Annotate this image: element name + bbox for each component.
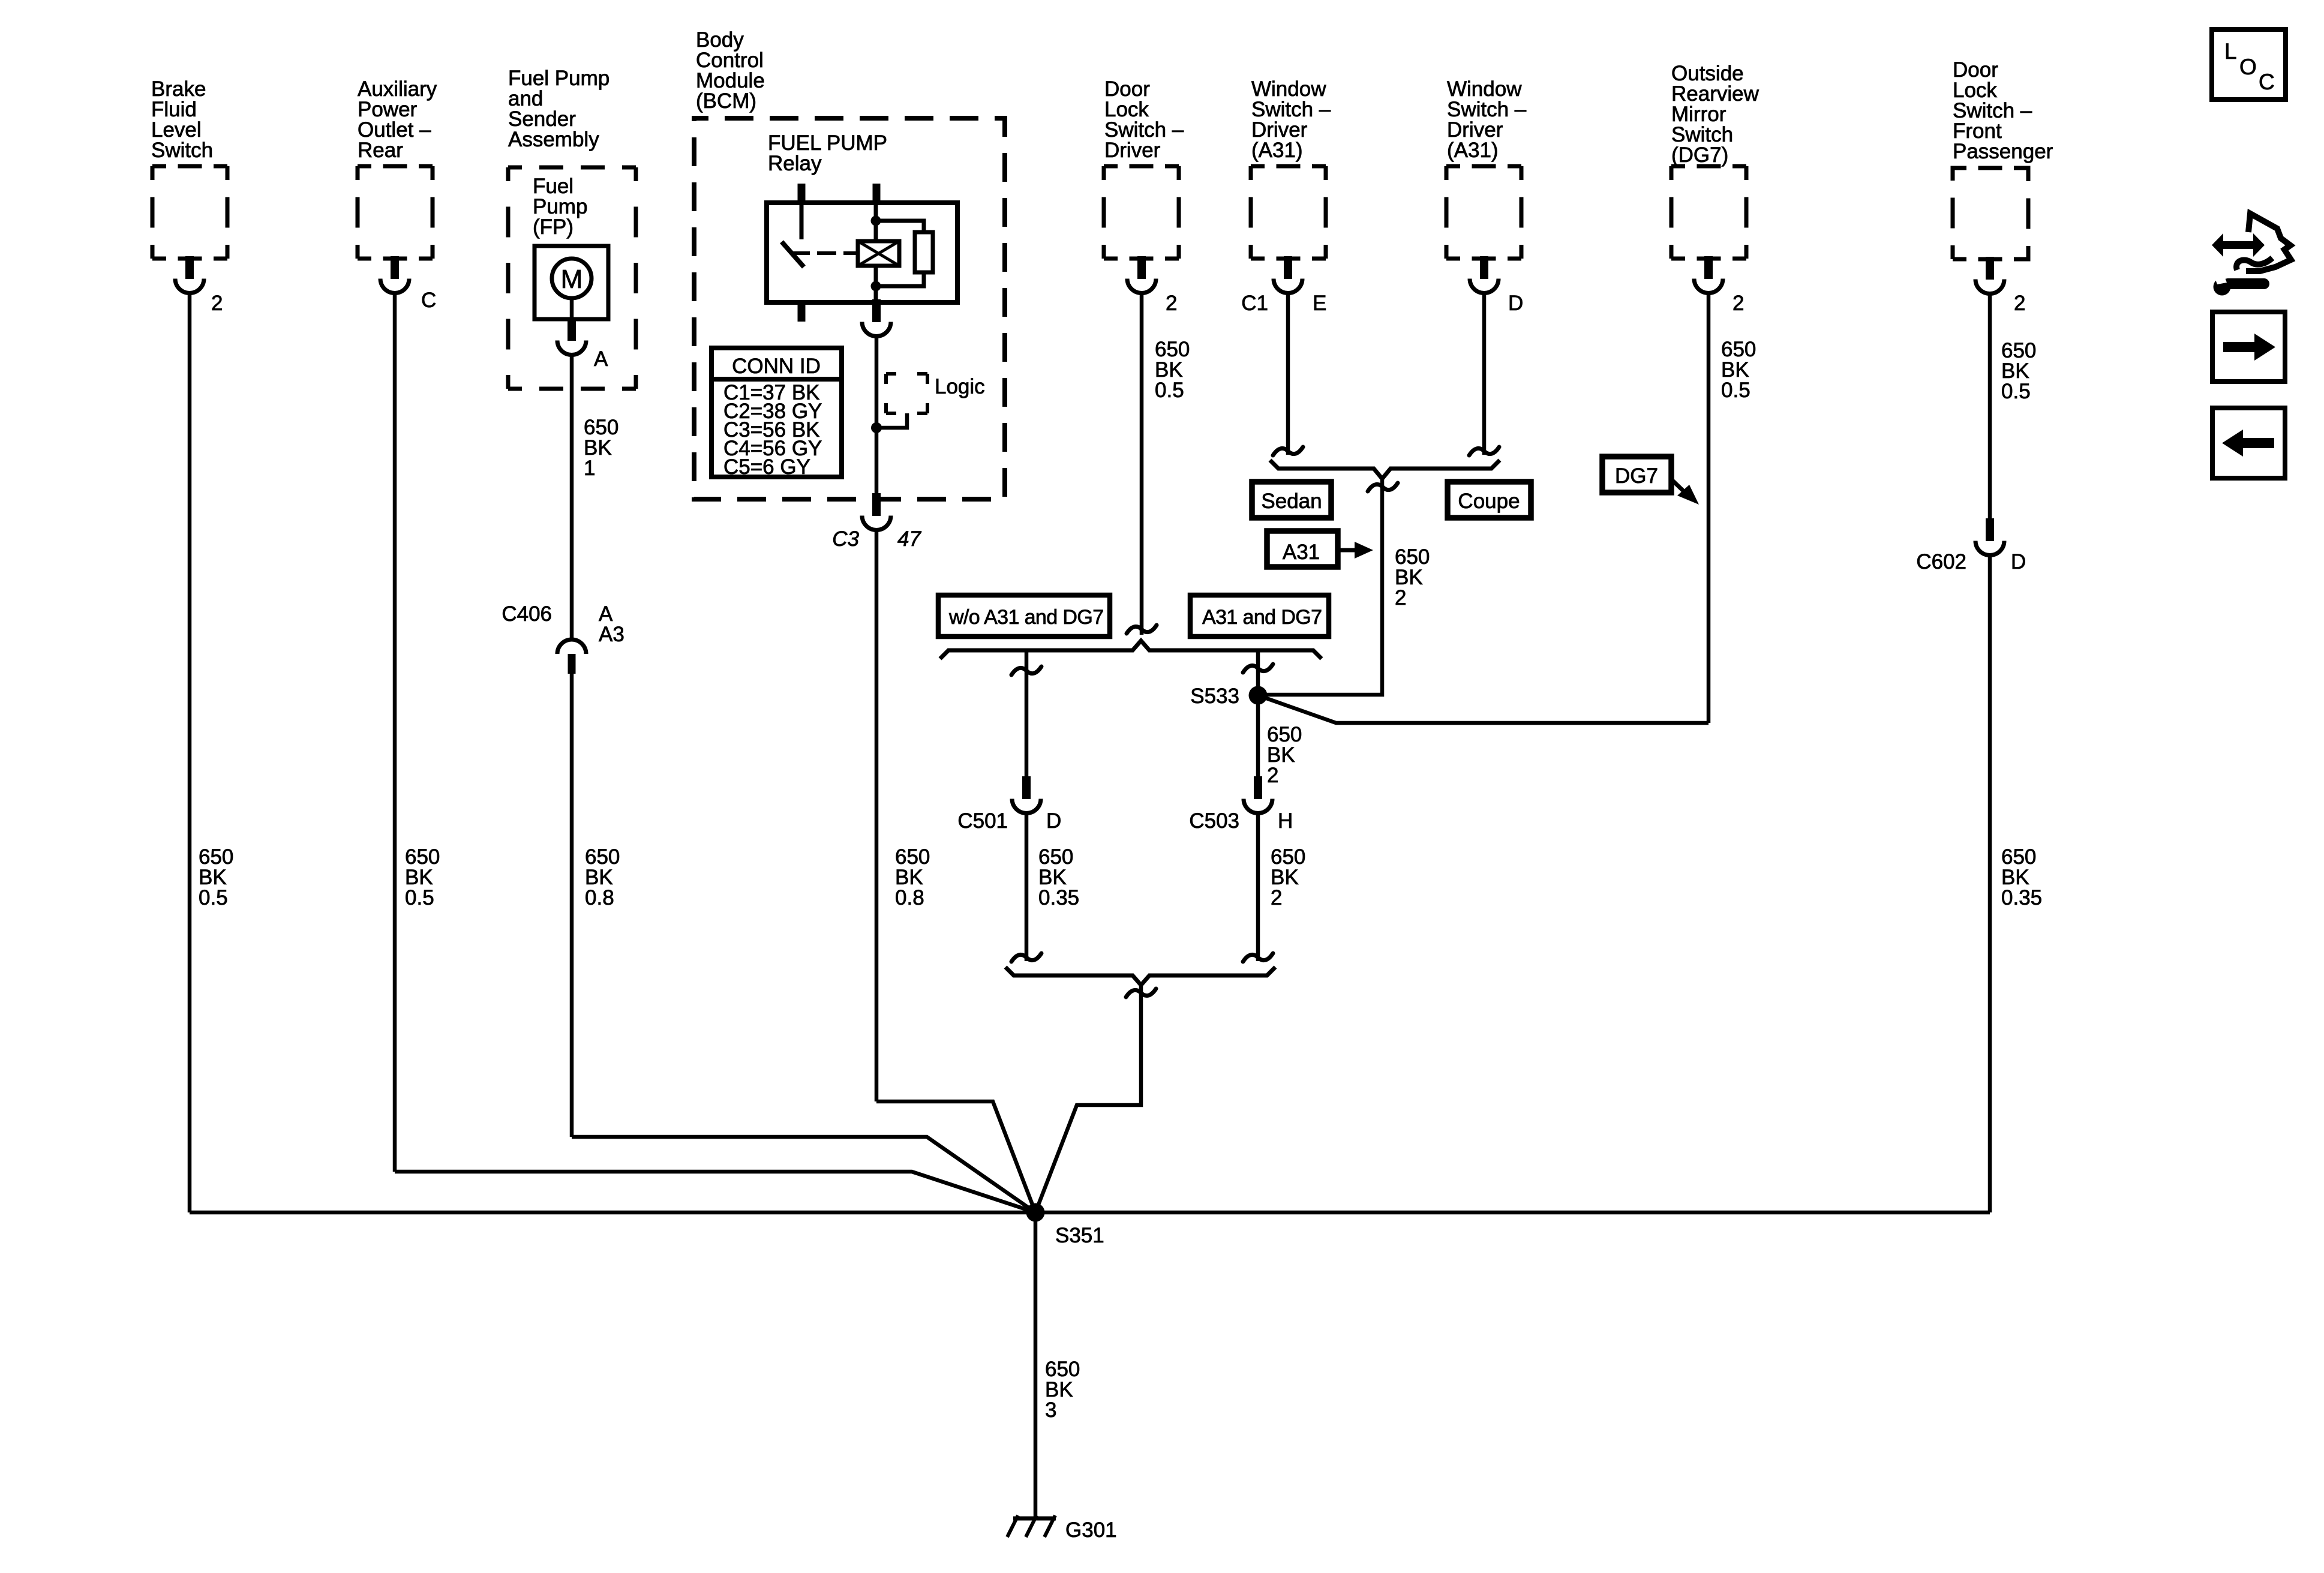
wire 650 BK 0.8 BCM down: [875, 530, 879, 1101]
svg-text:A3: A3: [599, 623, 624, 646]
component ORVM switch (dashed box): [1671, 166, 1746, 259]
svg-text:A31 and DG7: A31 and DG7: [1202, 606, 1322, 629]
svg-text:C3: C3: [832, 527, 859, 551]
component label Fuel Pump and Sender Assembly: [508, 67, 609, 151]
ground bus wire: [190, 1211, 1990, 1215]
component label Brake Fluid Level Switch: [151, 77, 213, 162]
connector pin of brake switch: [175, 256, 204, 293]
svg-text:47: 47: [897, 527, 921, 551]
brace merge window switches: [1270, 460, 1500, 479]
wire window switch sedan down: [1286, 294, 1290, 455]
svg-text:1: 1: [584, 457, 595, 480]
svg-text:0.35: 0.35: [2001, 886, 2042, 909]
Sedan tag box: [1252, 482, 1331, 518]
relay pin stub top-right: [873, 184, 881, 203]
connector C503 pin H: [1244, 776, 1272, 813]
svg-text:C503: C503: [1189, 809, 1239, 833]
svg-text:(DG7): (DG7): [1671, 143, 1728, 167]
svg-text:D: D: [1046, 809, 1061, 833]
svg-text:S351: S351: [1055, 1224, 1104, 1247]
svg-text:0.5: 0.5: [199, 886, 228, 909]
svg-text:C602: C602: [1916, 550, 1966, 574]
svg-text:0.8: 0.8: [895, 886, 924, 909]
motor symbol M circle: [552, 259, 591, 298]
wire label 650 BK 2 below S533: [1267, 723, 1302, 787]
svg-text:O: O: [2239, 55, 2257, 79]
next page arrow box: [2212, 312, 2285, 382]
break mark above lower brace right: [1243, 953, 1273, 962]
svg-text:CONN ID: CONN ID: [732, 355, 821, 378]
svg-text:2: 2: [2014, 292, 2025, 315]
svg-text:M: M: [561, 265, 583, 294]
svg-text:Coupe: Coupe: [1458, 490, 1520, 513]
w/o A31 and DG7 tag box: [938, 595, 1110, 637]
connector pin D: [1470, 256, 1499, 293]
relay pin stub bottom-left: [798, 302, 806, 322]
svg-text:H: H: [1278, 809, 1293, 833]
connector pin 2: [1975, 257, 2004, 294]
svg-text:Switch: Switch: [151, 139, 213, 162]
svg-text:D: D: [1508, 292, 1523, 315]
relay K box: [767, 203, 957, 302]
wire branch w/o A31 to C501: [1025, 650, 1029, 778]
svg-text:2: 2: [1395, 586, 1406, 610]
svg-text:0.35: 0.35: [1038, 886, 1079, 909]
wire 650 BK 0.8 C406 down to S351: [570, 674, 574, 1137]
resistor leads: [881, 221, 924, 232]
component Brake Fluid Level Switch (dashed box): [152, 166, 227, 259]
break mark: [1469, 447, 1499, 455]
component label Body Control Module (BCM): [696, 28, 765, 113]
component BCM (dashed box): [694, 118, 1005, 499]
connector pin: [1127, 256, 1156, 293]
connector C602 pin D: [1975, 518, 2004, 556]
wire shelf to S351: [572, 1137, 1035, 1212]
svg-text:Passenger: Passenger: [1953, 140, 2053, 163]
wire label 650 BK 3: [1045, 1358, 1080, 1422]
relay pin stub top-left: [798, 184, 806, 203]
wire 650 BK 0.5 aux outlet down: [393, 294, 397, 1172]
wire 650 BK 0.5 ORVM down: [1707, 294, 1711, 723]
wire 650 BK 3 to ground: [1034, 1212, 1038, 1518]
svg-text:A31: A31: [1283, 541, 1320, 564]
component label Window Switch Driver (A31) sedan: [1251, 77, 1331, 162]
component label Door Lock Switch Driver: [1104, 77, 1184, 162]
wire label 650 BK 0.5: [1155, 338, 1190, 402]
break mark below merge brace: [1126, 989, 1156, 997]
wire label 650 BK 0.8: [895, 845, 930, 909]
CONN ID table: [711, 348, 842, 479]
svg-text:C501: C501: [957, 809, 1008, 833]
svg-text:(A31): (A31): [1447, 139, 1499, 162]
svg-text:DG7: DG7: [1615, 464, 1658, 488]
svg-text:(BCM): (BCM): [696, 89, 756, 113]
relay coil lead lower: [874, 266, 878, 302]
wire 650 BK 0.35 C602 down to bus: [1988, 556, 1992, 1212]
A31 and DG7 tag box: [1190, 595, 1329, 637]
component label Outside Rearview Mirror Switch (DG7): [1671, 62, 1759, 167]
svg-text:G301: G301: [1065, 1518, 1117, 1542]
motor box of fuel pump: [535, 246, 608, 319]
wire motor to box bottom: [570, 298, 574, 319]
break mark on A31/DG7 branch: [1243, 664, 1273, 673]
svg-text:Sedan: Sedan: [1261, 490, 1322, 513]
wire branch A31 and DG7 to C503 through S533: [1256, 650, 1260, 778]
relay switch input lead: [800, 203, 804, 239]
wire label 650 BK 1: [584, 416, 618, 480]
wire label 650 BK 2: [1395, 545, 1430, 610]
Coupe tag box: [1448, 482, 1531, 518]
svg-text:C1: C1: [1241, 292, 1268, 315]
svg-text:0.5: 0.5: [1155, 379, 1184, 402]
previous page arrow box: [2212, 408, 2285, 478]
wire 650 BK 2 below C503: [1256, 813, 1260, 961]
svg-text:2: 2: [211, 292, 223, 315]
wire label 650 BK 0.5: [2001, 339, 2036, 403]
A31 tag box with arrow: [1267, 531, 1373, 567]
connector C406: [557, 640, 586, 674]
svg-text:Assembly: Assembly: [508, 128, 599, 151]
connector C3 pin 47: [862, 493, 891, 530]
svg-text:2: 2: [1733, 292, 1744, 315]
door adjust icon: [2212, 214, 2291, 296]
connector pin C1 / E: [1274, 256, 1302, 293]
brace split configurations (peak up): [940, 641, 1322, 659]
wire label 650 BK 0.5: [1721, 338, 1756, 402]
svg-text:C406: C406: [502, 602, 552, 626]
component Window Switch Driver sedan (dashed box): [1251, 166, 1326, 259]
wire ORVM to S533: [1258, 695, 1709, 723]
junction dot logic: [871, 422, 882, 433]
svg-text:C: C: [421, 289, 436, 312]
wire relay output down: [875, 337, 879, 494]
svg-text:(A31): (A31): [1251, 139, 1303, 162]
wire 650 BK 0.5 to C602: [1988, 295, 1992, 521]
relay output connector: [862, 299, 891, 337]
svg-text:Logic: Logic: [935, 375, 985, 398]
svg-text:Rear: Rear: [358, 139, 403, 162]
component Window Switch Driver coupe (dashed box): [1446, 166, 1521, 259]
brace merge C501/C503: [1005, 967, 1275, 985]
svg-text:2: 2: [1166, 292, 1177, 315]
component Door Lock FP (dashed box): [1953, 168, 2028, 259]
component Auxiliary Power Outlet (dashed box): [358, 166, 433, 259]
svg-text:0.5: 0.5: [2001, 380, 2031, 403]
break mark on door lock wire: [1127, 625, 1157, 634]
wire 650 BK 0.35 below C501: [1025, 813, 1029, 961]
wire window switch coupe down: [1482, 294, 1487, 455]
LOC box: [2212, 29, 2286, 100]
break mark above lower brace left: [1011, 953, 1041, 962]
junction dot upper: [871, 216, 881, 226]
resistor R: [915, 232, 933, 272]
wire merge brace to S351: [1035, 985, 1141, 1212]
svg-text:D: D: [2011, 550, 2026, 574]
connector C501 pin D: [1012, 776, 1041, 813]
svg-text:2: 2: [1267, 764, 1278, 787]
component label Auxiliary Power Outlet Rear: [358, 77, 437, 162]
break mark below brace: [1368, 483, 1398, 491]
wire shelf to S351: [395, 1172, 1035, 1212]
relay coil lead upper: [874, 203, 878, 241]
ground G301: [1007, 1515, 1056, 1537]
wire 650 BK 2 brace to S533: [1258, 479, 1382, 695]
wire label 650 BK 2: [1271, 845, 1305, 909]
svg-text:S533: S533: [1190, 685, 1239, 708]
svg-text:C5=6 GY: C5=6 GY: [723, 455, 810, 479]
connector pin of aux power outlet: [380, 256, 409, 293]
break mark on C501 branch: [1011, 667, 1041, 675]
relay actuator dashed link: [792, 251, 810, 255]
break mark: [1273, 447, 1303, 455]
wire 650 BK 0.5 door lock driver down to brace: [1140, 294, 1144, 635]
svg-text:0.5: 0.5: [405, 886, 434, 909]
component Door Lock Switch Driver (dashed box): [1104, 166, 1179, 259]
wire label 650 BK 0.35: [2001, 845, 2042, 909]
svg-text:C: C: [2259, 70, 2275, 94]
relay switch blade: [782, 242, 804, 267]
wire label 650 BK 0.8: [585, 845, 620, 909]
svg-text:w/o A31 and DG7: w/o A31 and DG7: [948, 606, 1104, 629]
splice S533: [1249, 686, 1268, 705]
component Fuel Pump and Sender Assembly (dashed box): [508, 167, 636, 389]
svg-text:3: 3: [1045, 1398, 1056, 1422]
label Fuel Pump (FP): [533, 175, 587, 239]
Logic box (dashed): [886, 374, 927, 413]
svg-text:2: 2: [1271, 886, 1282, 909]
svg-text:L: L: [2224, 39, 2237, 64]
wire 650 BK 1 fuel pump to C406: [570, 355, 574, 640]
component label Door Lock Switch Front Passenger: [1953, 58, 2053, 163]
connector pin 2: [1694, 256, 1723, 293]
DG7 tag box with arrow: [1602, 457, 1699, 505]
wire label 650 BK 0.5: [405, 845, 440, 909]
svg-text:Relay: Relay: [768, 152, 822, 175]
junction dot lower: [871, 281, 881, 292]
wire label 650 BK 0.35: [1038, 845, 1079, 909]
wire 650 BK 0.5 brake switch to S351 bus: [188, 294, 192, 1212]
wire logic box to relay wire: [876, 413, 907, 428]
svg-text:Driver: Driver: [1104, 139, 1161, 162]
label FUEL PUMP Relay: [768, 131, 887, 175]
svg-text:E: E: [1313, 292, 1326, 315]
component label Window Switch Driver (A31) coupe: [1447, 77, 1527, 162]
svg-text:0.8: 0.8: [585, 886, 614, 909]
wire label 650 BK 0.5: [199, 845, 233, 909]
relay coil (crossed box): [858, 241, 899, 266]
splice S351: [1026, 1203, 1045, 1222]
connector pin A of fuel pump: [557, 318, 586, 355]
svg-text:A: A: [594, 347, 608, 371]
svg-text:0.5: 0.5: [1721, 379, 1750, 402]
wire shelf to S351: [876, 1101, 1035, 1212]
svg-text:(FP): (FP): [533, 215, 574, 239]
